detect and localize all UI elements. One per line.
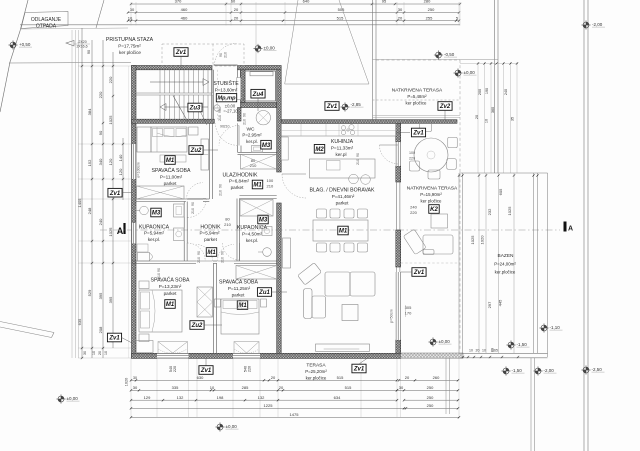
dining chairs row top (317, 209, 327, 218)
svg-text:460: 460 (181, 7, 188, 12)
svg-text:210: 210 (243, 94, 247, 100)
bedroom2 dresser (133, 341, 153, 353)
wc sink (252, 146, 263, 153)
wc west wall (238, 108, 242, 122)
terrace bottom edge (460, 352, 548, 354)
svg-text:P=11,33m²: P=11,33m² (331, 146, 354, 151)
elevator door opening (237, 78, 241, 100)
bottom dim row 4 (131, 407, 406, 409)
wc door arc (219, 126, 239, 146)
svg-text:Zu2: Zu2 (191, 323, 203, 329)
bedroom2 wardrobe (197, 287, 213, 317)
vestibule dashed guides (217, 70, 219, 119)
island sink (327, 161, 341, 171)
bathroom1 bathtub (137, 244, 148, 252)
elevator machine rect (250, 72, 273, 76)
svg-text:297: 297 (487, 301, 492, 308)
svg-text:210: 210 (267, 184, 274, 189)
svg-text:-1,50: -1,50 (517, 342, 528, 347)
svg-text:20: 20 (234, 15, 239, 20)
bedroom3 nightstand2 (261, 299, 267, 307)
elevation 0.00 entry (253, 44, 262, 53)
svg-text:80: 80 (225, 217, 230, 222)
svg-text:M1: M1 (207, 250, 216, 256)
svg-text:Mp,mp: Mp,mp (217, 96, 236, 102)
bedroom3 bed (221, 299, 259, 334)
neighbour building corner bottom-left (0, 322, 54, 333)
partition bedrooms north e (234, 261, 277, 264)
partition bathroom1 east upper (184, 202, 187, 244)
svg-text:P=5,94m²: P=5,94m² (144, 231, 165, 236)
elevation -2.50 right (581, 365, 590, 374)
svg-text:90: 90 (157, 268, 161, 272)
bedroom2 door arc (196, 245, 213, 262)
svg-text:250: 250 (427, 403, 434, 408)
svg-text:335: 335 (172, 385, 179, 390)
partition ulaz south / bathroom2 north (240, 196, 277, 199)
svg-text:165: 165 (492, 349, 498, 353)
bedroom1 pillow2 (164, 129, 174, 137)
kitchen bar stools (349, 174, 359, 184)
svg-text:20: 20 (98, 351, 102, 355)
svg-text:250: 250 (428, 7, 435, 12)
bedroom1 wardrobe left (137, 127, 151, 152)
svg-text:220: 220 (410, 210, 417, 215)
svg-text:210: 210 (224, 222, 231, 227)
svg-text:120: 120 (108, 158, 113, 165)
canopy dashed line (373, 99, 460, 101)
svg-text:30: 30 (399, 385, 404, 390)
svg-text:505: 505 (338, 7, 345, 12)
svg-text:70: 70 (243, 89, 247, 93)
bedroom3 door arc (218, 245, 235, 262)
terasa east boundary verticals (445, 358, 447, 414)
svg-text:=-27,10: =-27,10 (223, 109, 238, 114)
bedroom1 wardrobe east (201, 139, 209, 170)
svg-text:170: 170 (405, 311, 412, 316)
kitchen island (310, 159, 376, 178)
svg-text:ker.pl.: ker.pl. (246, 139, 258, 144)
svg-text:305: 305 (405, 305, 412, 310)
svg-text:SPAVAĆA SOBA: SPAVAĆA SOBA (152, 167, 191, 174)
svg-text:1025: 1025 (470, 235, 475, 245)
svg-text:260: 260 (433, 375, 440, 380)
svg-text:Zv1: Zv1 (175, 50, 187, 56)
bathroom2 sink (263, 248, 272, 257)
horizontal line y59.5 (373, 59, 499, 61)
roof overhang lines above north wall (373, 114, 461, 116)
svg-text:20: 20 (476, 349, 480, 353)
bottom dim row 3 (131, 399, 397, 401)
shelf west wall living (283, 238, 291, 268)
left dim col 1 (81, 28, 83, 358)
svg-text:ODLAGANJE: ODLAGANJE (31, 17, 62, 23)
svg-text:P=25,20m²: P=25,20m² (305, 369, 327, 374)
svg-text:132: 132 (258, 395, 265, 400)
svg-text:220: 220 (173, 366, 177, 372)
partition bedroom2/3 (213, 264, 216, 354)
wall exterior north-east segment (238, 66, 282, 70)
Zv1 tag west lower (107, 333, 121, 342)
svg-text:ker.pl.: ker.pl. (246, 238, 258, 243)
svg-text:250: 250 (427, 385, 434, 390)
svg-text:ker.pločice: ker.pločice (306, 376, 327, 381)
svg-text:P=15,90m²: P=15,90m² (420, 192, 442, 197)
svg-text:parket: parket (336, 201, 349, 206)
svg-text:635: 635 (77, 318, 82, 325)
svg-text:1025: 1025 (507, 206, 512, 216)
svg-text:35: 35 (511, 117, 515, 121)
svg-text:90: 90 (98, 130, 103, 135)
bedroom3 pillow1 (223, 301, 239, 309)
bedroom1 pillow1 (153, 129, 163, 137)
svg-text:Zv1: Zv1 (353, 367, 365, 373)
svg-text:190: 190 (485, 88, 489, 94)
site boundary line horizontal (20, 24, 460, 26)
svg-text:630: 630 (197, 375, 204, 380)
svg-text:-2,85: -2,85 (351, 102, 362, 107)
entrance threshold (214, 64, 238, 66)
elevation -2.00 below (533, 366, 542, 375)
svg-text:Zu3: Zu3 (189, 106, 201, 112)
svg-text:90: 90 (218, 109, 222, 113)
top dimension row 2 (128, 12, 459, 14)
svg-text:SPAVAĆA SOBA: SPAVAĆA SOBA (219, 279, 258, 286)
svg-text:360: 360 (491, 107, 495, 113)
partition bedroom1 south west part (136, 199, 186, 202)
svg-text:10: 10 (469, 349, 473, 353)
svg-text:P=5,94m²: P=5,94m² (199, 231, 220, 236)
svg-text:ker pločice: ker pločice (119, 50, 141, 55)
svg-text:ker.pl.: ker.pl. (148, 237, 160, 242)
svg-text:210: 210 (219, 190, 223, 196)
svg-text:P=11,25m²: P=11,25m² (228, 286, 251, 291)
elevation -0.50 (434, 50, 443, 59)
svg-text:210: 210 (250, 163, 257, 168)
svg-text:TERASA: TERASA (306, 363, 326, 369)
svg-text:90: 90 (243, 113, 247, 117)
svg-text:ker.pločice: ker.pločice (495, 270, 516, 275)
fence verticals full right (583, 0, 585, 451)
bathroom1 washer+dryer (174, 204, 185, 217)
wall staircase south (132, 119, 215, 123)
bedroom3 wardrobe (236, 266, 277, 280)
svg-text:240: 240 (98, 218, 103, 225)
svg-text:30: 30 (83, 351, 87, 355)
svg-text:210: 210 (197, 257, 201, 263)
svg-text:30: 30 (133, 385, 138, 390)
left dim col 3 (102, 40, 104, 358)
kitchen counter (281, 124, 396, 136)
site boundary slanted west (0, 0, 28, 112)
bottom extension verticals (130, 358, 132, 417)
svg-text:parket: parket (204, 237, 217, 242)
top dim extension verticals (130, 2, 132, 26)
staircase treads lower flight (159, 95, 161, 119)
svg-text:90: 90 (219, 184, 223, 188)
svg-text:K2: K2 (430, 207, 438, 213)
svg-text:+0,50: +0,50 (19, 42, 31, 47)
svg-text:P=6,84m²: P=6,84m² (229, 179, 250, 184)
elevation -1.50 pool (506, 340, 515, 349)
svg-text:210: 210 (157, 273, 161, 279)
svg-text:10: 10 (104, 351, 108, 355)
svg-text:Zu1: Zu1 (258, 290, 270, 296)
pool dim verticals (478, 173, 480, 354)
stair note triangle symbol (66, 41, 74, 47)
elevation -2.00 top right (581, 20, 590, 29)
partition hodnik east upper (237, 199, 240, 244)
bottom right short dim rows (399, 379, 458, 381)
svg-text:634: 634 (334, 395, 341, 400)
section mark A right (564, 222, 567, 232)
svg-text:P=24,00m²: P=24,00m² (494, 262, 516, 267)
svg-text:220: 220 (108, 76, 113, 83)
svg-text:parket: parket (164, 181, 177, 186)
svg-text:340: 340 (98, 158, 103, 165)
svg-text:±0,00: ±0,00 (67, 396, 79, 401)
partition bedrooms north w (132, 261, 197, 264)
pool bottom ticks (462, 356, 464, 358)
roof trapezoid right (339, 0, 369, 84)
svg-text:M1: M1 (253, 183, 262, 189)
terrace K2 dashed east boundary (459, 117, 461, 351)
svg-text:30: 30 (130, 7, 135, 12)
staircase treads upper flight (159, 70, 161, 93)
svg-text:90: 90 (197, 251, 201, 255)
svg-text:1225: 1225 (264, 403, 274, 408)
svg-text:1475: 1475 (290, 412, 300, 417)
bedroom2 nightstand1 (139, 281, 149, 289)
elevation 0.00 SW (56, 394, 65, 403)
context path verticals (71, 30, 73, 358)
dining chairs row bottom (317, 243, 327, 252)
svg-text:220: 220 (248, 366, 252, 372)
svg-text:±0,00: ±0,00 (226, 424, 238, 429)
bathroom2 door arc (223, 243, 240, 260)
elevation -1.10 pool (539, 323, 548, 332)
svg-text:-0,50: -0,50 (444, 52, 455, 57)
svg-text:parket: parket (164, 291, 177, 296)
svg-text:120: 120 (118, 168, 123, 175)
svg-text:A: A (568, 226, 573, 233)
svg-text:605: 605 (498, 188, 503, 195)
svg-text:Zv1: Zv1 (108, 336, 120, 342)
partition hodnik east lower (237, 243, 240, 261)
bedroom1 wardrobe strip above bathroom (137, 186, 185, 199)
terrace north dashed boundary (376, 59, 460, 61)
elevation 0.00 S center (215, 422, 224, 431)
svg-text:90: 90 (219, 53, 223, 57)
svg-text:A: A (117, 226, 124, 236)
svg-text:Zv1: Zv1 (326, 104, 338, 110)
svg-text:M1: M1 (339, 229, 348, 235)
svg-text:KUPAONICA: KUPAONICA (237, 225, 268, 231)
bedroom1 bed (151, 127, 187, 152)
bedroom1 bench (160, 155, 186, 162)
svg-text:Zv1: Zv1 (412, 131, 424, 137)
facade offset line west (128, 66, 130, 358)
svg-text:220: 220 (98, 91, 103, 98)
svg-text:255: 255 (426, 15, 433, 20)
wall exterior south (132, 353, 401, 358)
bathroom1 toilet (138, 253, 150, 262)
terrace K2 canopy dashed (401, 262, 460, 264)
svg-text:232: 232 (487, 208, 492, 215)
svg-text:208: 208 (98, 326, 103, 333)
svg-text:1020: 1020 (480, 235, 485, 245)
svg-text:-2,00: -2,00 (544, 368, 555, 373)
partition staircase/vestibule (212, 70, 214, 119)
terrace east top edge (459, 172, 548, 174)
svg-text:129: 129 (144, 395, 151, 400)
ODLAGANJE OTPADA enclosure (21, 12, 68, 29)
svg-text:220: 220 (409, 157, 415, 161)
bedroom2 pillow2 (141, 311, 150, 328)
svg-text:p=50cm: p=50cm (390, 309, 394, 323)
svg-text:445: 445 (498, 299, 503, 306)
svg-text:30: 30 (133, 376, 137, 380)
terrace chairs (420, 123, 432, 132)
bedroom2 pillow1 (141, 292, 150, 309)
Zv1 tag east wall (412, 268, 426, 277)
elevation 0.00 terrace NE (453, 68, 462, 77)
Zv1 tag west wall window (108, 188, 122, 197)
bedroom1 pillow3 (176, 129, 186, 137)
elevator shaft Zu4 inner (245, 71, 276, 101)
svg-text:515: 515 (337, 15, 344, 20)
bathroom2 toilet (262, 227, 272, 236)
svg-text:NATKRIVENA TERASA: NATKRIVENA TERASA (407, 186, 458, 192)
svg-text:515: 515 (345, 385, 352, 390)
svg-text:P=41,46m²: P=41,46m² (332, 194, 355, 199)
entrance inner door arc (216, 123, 238, 145)
svg-text:M3: M3 (152, 211, 161, 217)
svg-text:o=100cm: o=100cm (137, 162, 141, 178)
stair arrow up (150, 81, 203, 83)
svg-text:95: 95 (382, 0, 387, 4)
svg-text:1025: 1025 (108, 227, 113, 237)
svg-text:460: 460 (181, 15, 188, 20)
svg-text:P=11,00m²: P=11,00m² (160, 175, 183, 180)
stair arrow down (165, 106, 208, 108)
bedroom1 nightstand (189, 127, 199, 135)
wall north kitchen/living + terrace (281, 120, 457, 124)
svg-text:140: 140 (118, 154, 123, 161)
left dim col 2 (91, 40, 93, 358)
partition bedrooms north m (213, 261, 217, 264)
svg-text:M3: M3 (262, 143, 271, 149)
roof trapezoid left (285, 0, 298, 84)
svg-text:P=4,50m²: P=4,50m² (242, 232, 263, 237)
bedroom3 nightstand1 (215, 299, 221, 307)
svg-text:±0,00: ±0,00 (264, 46, 276, 51)
svg-text:250: 250 (427, 395, 434, 400)
svg-text:BLAG. / DNEVNI BORAVAK: BLAG. / DNEVNI BORAVAK (310, 188, 375, 194)
svg-text:20: 20 (271, 375, 276, 380)
dining table (313, 220, 368, 241)
stair break line (173, 96, 188, 123)
svg-text:NATKRIVENA TERASA: NATKRIVENA TERASA (392, 88, 443, 94)
coffee table (342, 305, 358, 321)
svg-text:P=2,95m²: P=2,95m² (242, 133, 262, 138)
sofa corner group (298, 263, 375, 319)
svg-text:20: 20 (279, 385, 284, 390)
svg-text:90: 90 (221, 251, 225, 255)
bathroom2 shower (240, 200, 273, 217)
svg-text:-2,00: -2,00 (592, 22, 603, 27)
svg-text:20: 20 (398, 15, 403, 20)
terrace outdoor sofa (403, 229, 453, 255)
svg-text:10: 10 (128, 15, 133, 20)
svg-text:210: 210 (191, 208, 195, 214)
svg-text:-1,50: -1,50 (512, 368, 523, 373)
bathroom1 sink (140, 206, 149, 215)
svg-text:529: 529 (87, 289, 92, 296)
svg-text:Zu2: Zu2 (190, 148, 202, 154)
partition wc south (238, 152, 277, 154)
svg-text:10: 10 (485, 119, 489, 123)
elevator walls (241, 70, 246, 103)
tv cabinet (316, 344, 370, 351)
top right dim cluster (477, 62, 479, 173)
svg-text:Zu4: Zu4 (252, 92, 264, 98)
bedroom2 bed (139, 290, 182, 332)
bedroom1 door arc (187, 183, 204, 200)
svg-text:M2: M2 (315, 147, 324, 153)
elevation -1.50 below (501, 366, 510, 375)
svg-text:20: 20 (405, 375, 410, 380)
svg-text:395: 395 (98, 292, 103, 299)
svg-text:-2,50: -2,50 (592, 367, 603, 372)
svg-text:±0,00: ±0,00 (464, 70, 476, 75)
partition bedroom1 east (209, 123, 212, 199)
svg-text:20: 20 (234, 7, 239, 12)
svg-text:210: 210 (221, 257, 225, 263)
kitchen stove circles (341, 126, 345, 130)
svg-text:90: 90 (87, 50, 91, 54)
svg-text:515: 515 (337, 375, 344, 380)
partition bathroom1 east lower (184, 243, 187, 261)
svg-text:60: 60 (231, 0, 236, 4)
spine wall segments (277, 70, 282, 172)
svg-text:210: 210 (243, 119, 247, 125)
svg-text:200: 200 (478, 89, 482, 95)
top dimension row 1 (131, 3, 460, 5)
svg-text:10: 10 (92, 351, 96, 355)
svg-text:STUBIŠTE: STUBIŠTE (213, 80, 239, 87)
svg-text:100: 100 (267, 178, 274, 183)
svg-text:parket: parket (232, 293, 245, 298)
roof double line vertical (372, 0, 374, 120)
entrance door arc outside (215, 44, 237, 66)
svg-text:P=17,75m²: P=17,75m² (118, 44, 141, 49)
svg-text:640: 640 (303, 0, 310, 4)
svg-text:370: 370 (175, 0, 182, 4)
top dimension row 3 (128, 20, 459, 22)
left dim col 4 (112, 52, 114, 348)
staircase landing line (136, 92, 213, 94)
bottom dim row 2 (131, 389, 397, 391)
wall exterior north-west segment (132, 66, 213, 70)
svg-text:Zv1: Zv1 (200, 368, 212, 374)
svg-text:M3: M3 (259, 218, 268, 224)
svg-text:240: 240 (410, 205, 417, 210)
wall exterior east segments (396, 123, 401, 142)
living door arc (282, 174, 306, 198)
svg-text:90: 90 (191, 202, 195, 206)
svg-text:210: 210 (224, 52, 228, 58)
